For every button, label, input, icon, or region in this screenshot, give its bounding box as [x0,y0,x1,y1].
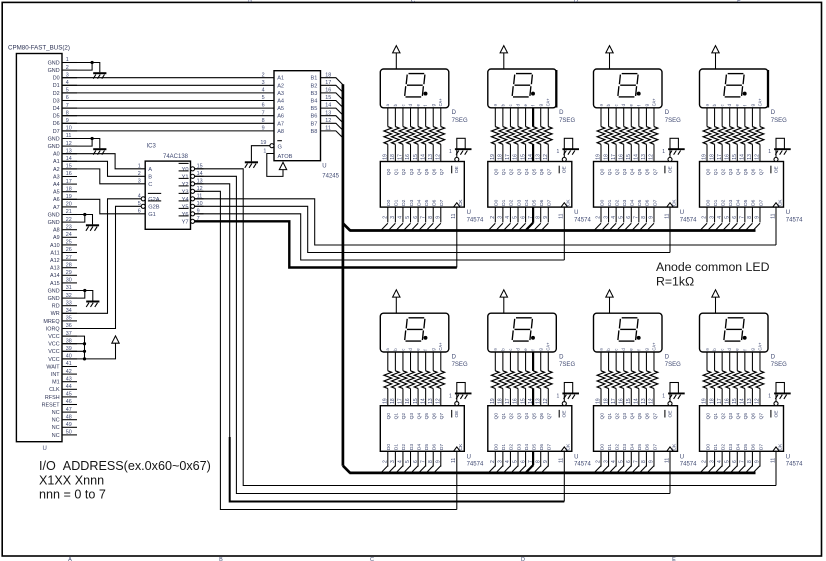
svg-text:A14: A14 [50,273,60,279]
svg-text:43: 43 [66,376,72,382]
svg-text:GND: GND [48,220,60,226]
svg-text:13: 13 [325,110,331,116]
svg-text:35: 35 [66,316,72,322]
svg-text:28: 28 [66,262,72,268]
svg-text:RESET: RESET [42,402,61,408]
svg-text:GND: GND [48,212,60,218]
svg-text:1: 1 [66,57,69,63]
svg-text:Y3: Y3 [182,189,189,195]
svg-text:D6: D6 [53,121,60,127]
display block U2 (7SEG + 74574) [488,46,592,224]
svg-text:17: 17 [325,80,331,86]
svg-text:D4: D4 [53,106,60,112]
svg-text:nnn = 0 to 7: nnn = 0 to 7 [39,488,106,502]
svg-text:Y7: Y7 [182,219,189,225]
svg-text:Y5: Y5 [182,204,189,210]
svg-text:18: 18 [325,72,331,78]
svg-text:11: 11 [325,126,331,132]
svg-text:27: 27 [66,255,72,261]
svg-text:74245: 74245 [322,174,339,180]
svg-text:A13: A13 [50,266,60,272]
svg-text:D7: D7 [53,129,60,135]
svg-text:X1XX Xnnn: X1XX Xnnn [39,474,104,488]
svg-text:NC: NC [52,433,60,439]
svg-text:B: B [148,174,152,180]
svg-text:B4: B4 [311,99,318,105]
svg-text:Y1: Y1 [182,174,189,180]
svg-text:B: B [219,557,223,561]
svg-text:GND: GND [48,68,60,74]
ATOB direction pin 1 [267,154,283,177]
display block U1 (7SEG + 74574) [380,46,484,224]
svg-text:5: 5 [138,201,141,207]
display block L2 (7SEG + 74574) [488,290,592,468]
svg-text:RD: RD [52,304,60,310]
svg-text:G: G [278,144,282,150]
wire Y6 to upper CK2 [195,214,565,260]
svg-text:3: 3 [262,80,265,86]
wire IORQ to G2B [62,206,141,328]
svg-text:A1: A1 [53,159,60,165]
svg-text:B1: B1 [311,76,318,82]
svg-text:A3: A3 [53,174,60,180]
svg-text:C: C [370,557,374,561]
svg-text:74AC138: 74AC138 [163,154,189,160]
svg-text:30: 30 [66,278,72,284]
svg-text:GND: GND [48,60,60,66]
svg-text:19: 19 [260,140,266,146]
display block U4 (7SEG + 74574) [700,46,804,224]
svg-text:C: C [148,182,152,188]
svg-text:49: 49 [66,422,72,428]
svg-text:A15: A15 [50,281,60,287]
svg-text:A8: A8 [277,129,284,135]
svg-text:46: 46 [66,399,72,405]
ground pins 21,22 [77,215,93,225]
svg-text:A: A [68,557,72,561]
svg-text:A8: A8 [53,228,60,234]
svg-text:A3: A3 [277,91,284,97]
wire Y5 to upper CK3 [195,206,670,252]
svg-text:CPM80-FAST_BUS(2): CPM80-FAST_BUS(2) [8,45,70,52]
svg-text:16: 16 [66,171,72,177]
svg-text:A4: A4 [53,182,60,188]
svg-text:1: 1 [138,163,141,169]
svg-text:D: D [521,557,525,561]
VCC pins 37-40 [62,336,116,359]
display block L1 (7SEG + 74574) [380,290,484,468]
svg-text:42: 42 [66,369,72,375]
svg-text:Y6: Y6 [182,212,189,218]
svg-text:A12: A12 [50,258,60,264]
svg-text:WAIT: WAIT [46,364,60,370]
svg-text:A7: A7 [277,121,284,127]
svg-text:B8: B8 [311,129,318,135]
svg-text:44: 44 [66,384,72,390]
svg-text:45: 45 [66,392,72,398]
svg-text:3: 3 [138,178,141,184]
svg-text:D3: D3 [53,98,60,104]
svg-text:16: 16 [325,88,331,94]
svg-text:25: 25 [66,240,72,246]
wire Y0 to lower CK4 [195,169,776,486]
svg-text:B2: B2 [311,83,318,89]
svg-text:12: 12 [66,141,72,147]
svg-text:Y0: Y0 [182,167,189,173]
display block U3 (7SEG + 74574) [594,46,698,224]
svg-text:31: 31 [66,285,72,291]
svg-text:VCC: VCC [48,349,59,355]
svg-text:33: 33 [66,300,72,306]
svg-text:2: 2 [138,171,141,177]
wire A6 to decoder G1 [62,199,145,214]
svg-text:Anode common LED: Anode common LED [656,260,770,274]
svg-text:NC: NC [52,410,60,416]
svg-text:IORQ: IORQ [46,326,60,332]
svg-text:1: 1 [263,148,266,154]
svg-text:5: 5 [262,95,265,101]
svg-text:50: 50 [66,430,72,436]
svg-text:IC3: IC3 [147,144,157,150]
wire A1 to decoder B [62,161,145,176]
display block L4 (7SEG + 74574) [700,290,804,468]
G enable pin 19 [251,146,269,162]
svg-text:A1: A1 [277,76,284,82]
svg-text:A2: A2 [277,83,284,89]
svg-text:9: 9 [262,126,265,132]
svg-text:VCC: VCC [48,357,59,363]
svg-text:VCC: VCC [48,342,59,348]
svg-text:U: U [43,446,47,452]
svg-text:A2: A2 [53,167,60,173]
svg-text:47: 47 [66,407,72,413]
svg-text:B5: B5 [311,106,318,112]
svg-text:B7: B7 [311,121,318,127]
svg-text:GND: GND [48,136,60,142]
svg-text:D0: D0 [53,76,60,82]
svg-text:7: 7 [262,110,265,116]
svg-text:41: 41 [66,361,72,367]
svg-text:INT: INT [51,372,60,378]
svg-text:R=1kΩ: R=1kΩ [656,275,694,289]
ground pins 1,2 [77,63,100,73]
data bus lower row [350,472,756,475]
svg-text:22: 22 [66,217,72,223]
svg-text:Y2: Y2 [182,182,189,188]
data bus upper row [350,229,756,232]
svg-text:A6: A6 [53,197,60,203]
power flag VCC [112,336,119,343]
svg-text:B3: B3 [311,91,318,97]
svg-text:ATOB: ATOB [278,154,293,160]
svg-text:A9: A9 [53,235,60,241]
display block L3 (7SEG + 74574) [594,290,698,468]
svg-text:2: 2 [262,72,265,78]
wire A2 to decoder C [62,169,145,184]
svg-text:6: 6 [262,103,265,109]
data bus vertical [342,84,345,466]
svg-text:Y4: Y4 [182,197,189,203]
svg-text:A6: A6 [277,114,284,120]
svg-text:A10: A10 [50,243,60,249]
svg-text:D2: D2 [53,91,60,97]
ground pins 31,32 [77,291,93,301]
bold net column display 2 [526,108,533,230]
svg-text:A: A [148,167,152,173]
svg-text:MREQ: MREQ [43,319,59,325]
data wires D0-D7 [62,77,274,79]
svg-text:4: 4 [138,193,141,199]
svg-text:B6: B6 [311,114,318,120]
svg-text:24: 24 [66,232,72,238]
svg-text:A4: A4 [277,99,284,105]
buffer U 74245 [274,71,321,161]
svg-text:VCC: VCC [48,334,59,340]
svg-text:E: E [737,0,741,4]
ground pins 11,12 [77,139,100,149]
svg-text:A7: A7 [53,205,60,211]
svg-text:12: 12 [325,118,331,124]
svg-text:2: 2 [66,65,69,71]
svg-text:D5: D5 [53,114,60,120]
svg-text:GND: GND [48,144,60,150]
svg-text:32: 32 [66,293,72,299]
svg-text:A11: A11 [50,250,59,256]
svg-text:RFSH: RFSH [45,395,60,401]
svg-text:26: 26 [66,247,72,253]
svg-text:M1: M1 [52,380,60,386]
wire Y4 to upper CK4 [195,199,776,245]
svg-text:WR: WR [51,311,60,317]
svg-text:D: D [574,0,578,4]
svg-text:I/O ADDRESS(ex.0x60~0x67): I/O ADDRESS(ex.0x60~0x67) [39,459,211,473]
wire A0 to decoder A [62,154,145,169]
wire Y1 to lower CK3 [195,176,670,493]
svg-text:14: 14 [325,103,331,109]
svg-text:15: 15 [325,95,331,101]
svg-text:NC: NC [52,425,60,431]
svg-text:NC: NC [52,418,60,424]
svg-text:48: 48 [66,414,72,420]
svg-text:C: C [411,0,415,4]
svg-text:A5: A5 [53,190,60,196]
svg-text:29: 29 [66,270,72,276]
svg-text:CLK: CLK [49,387,60,393]
svg-text:G2A: G2A [148,197,160,203]
svg-text:23: 23 [66,224,72,230]
bold display outline edges [555,70,557,108]
svg-text:G1: G1 [148,212,156,218]
svg-text:6: 6 [138,208,141,214]
svg-text:11: 11 [66,133,72,139]
svg-text:4: 4 [262,88,265,94]
svg-text:17: 17 [66,179,72,185]
svg-text:20: 20 [66,202,72,208]
svg-text:GND: GND [48,288,60,294]
svg-text:A5: A5 [277,106,284,112]
svg-text:U: U [322,164,326,170]
svg-text:D1: D1 [53,83,60,89]
svg-text:21: 21 [66,209,72,215]
svg-text:G2B: G2B [148,204,160,210]
svg-text:B: B [248,0,252,4]
wire Y2 to lower CK2 [195,184,230,437]
svg-text:E: E [672,557,676,561]
wire WR to G2A [62,199,141,313]
svg-text:18: 18 [66,186,72,192]
wire Y7 to upper CK1 (bold) [195,221,457,267]
svg-text:A0: A0 [53,152,60,158]
svg-text:8: 8 [262,118,265,124]
wire Y3 to lower CK1 [195,191,457,509]
svg-text:GND: GND [48,296,60,302]
